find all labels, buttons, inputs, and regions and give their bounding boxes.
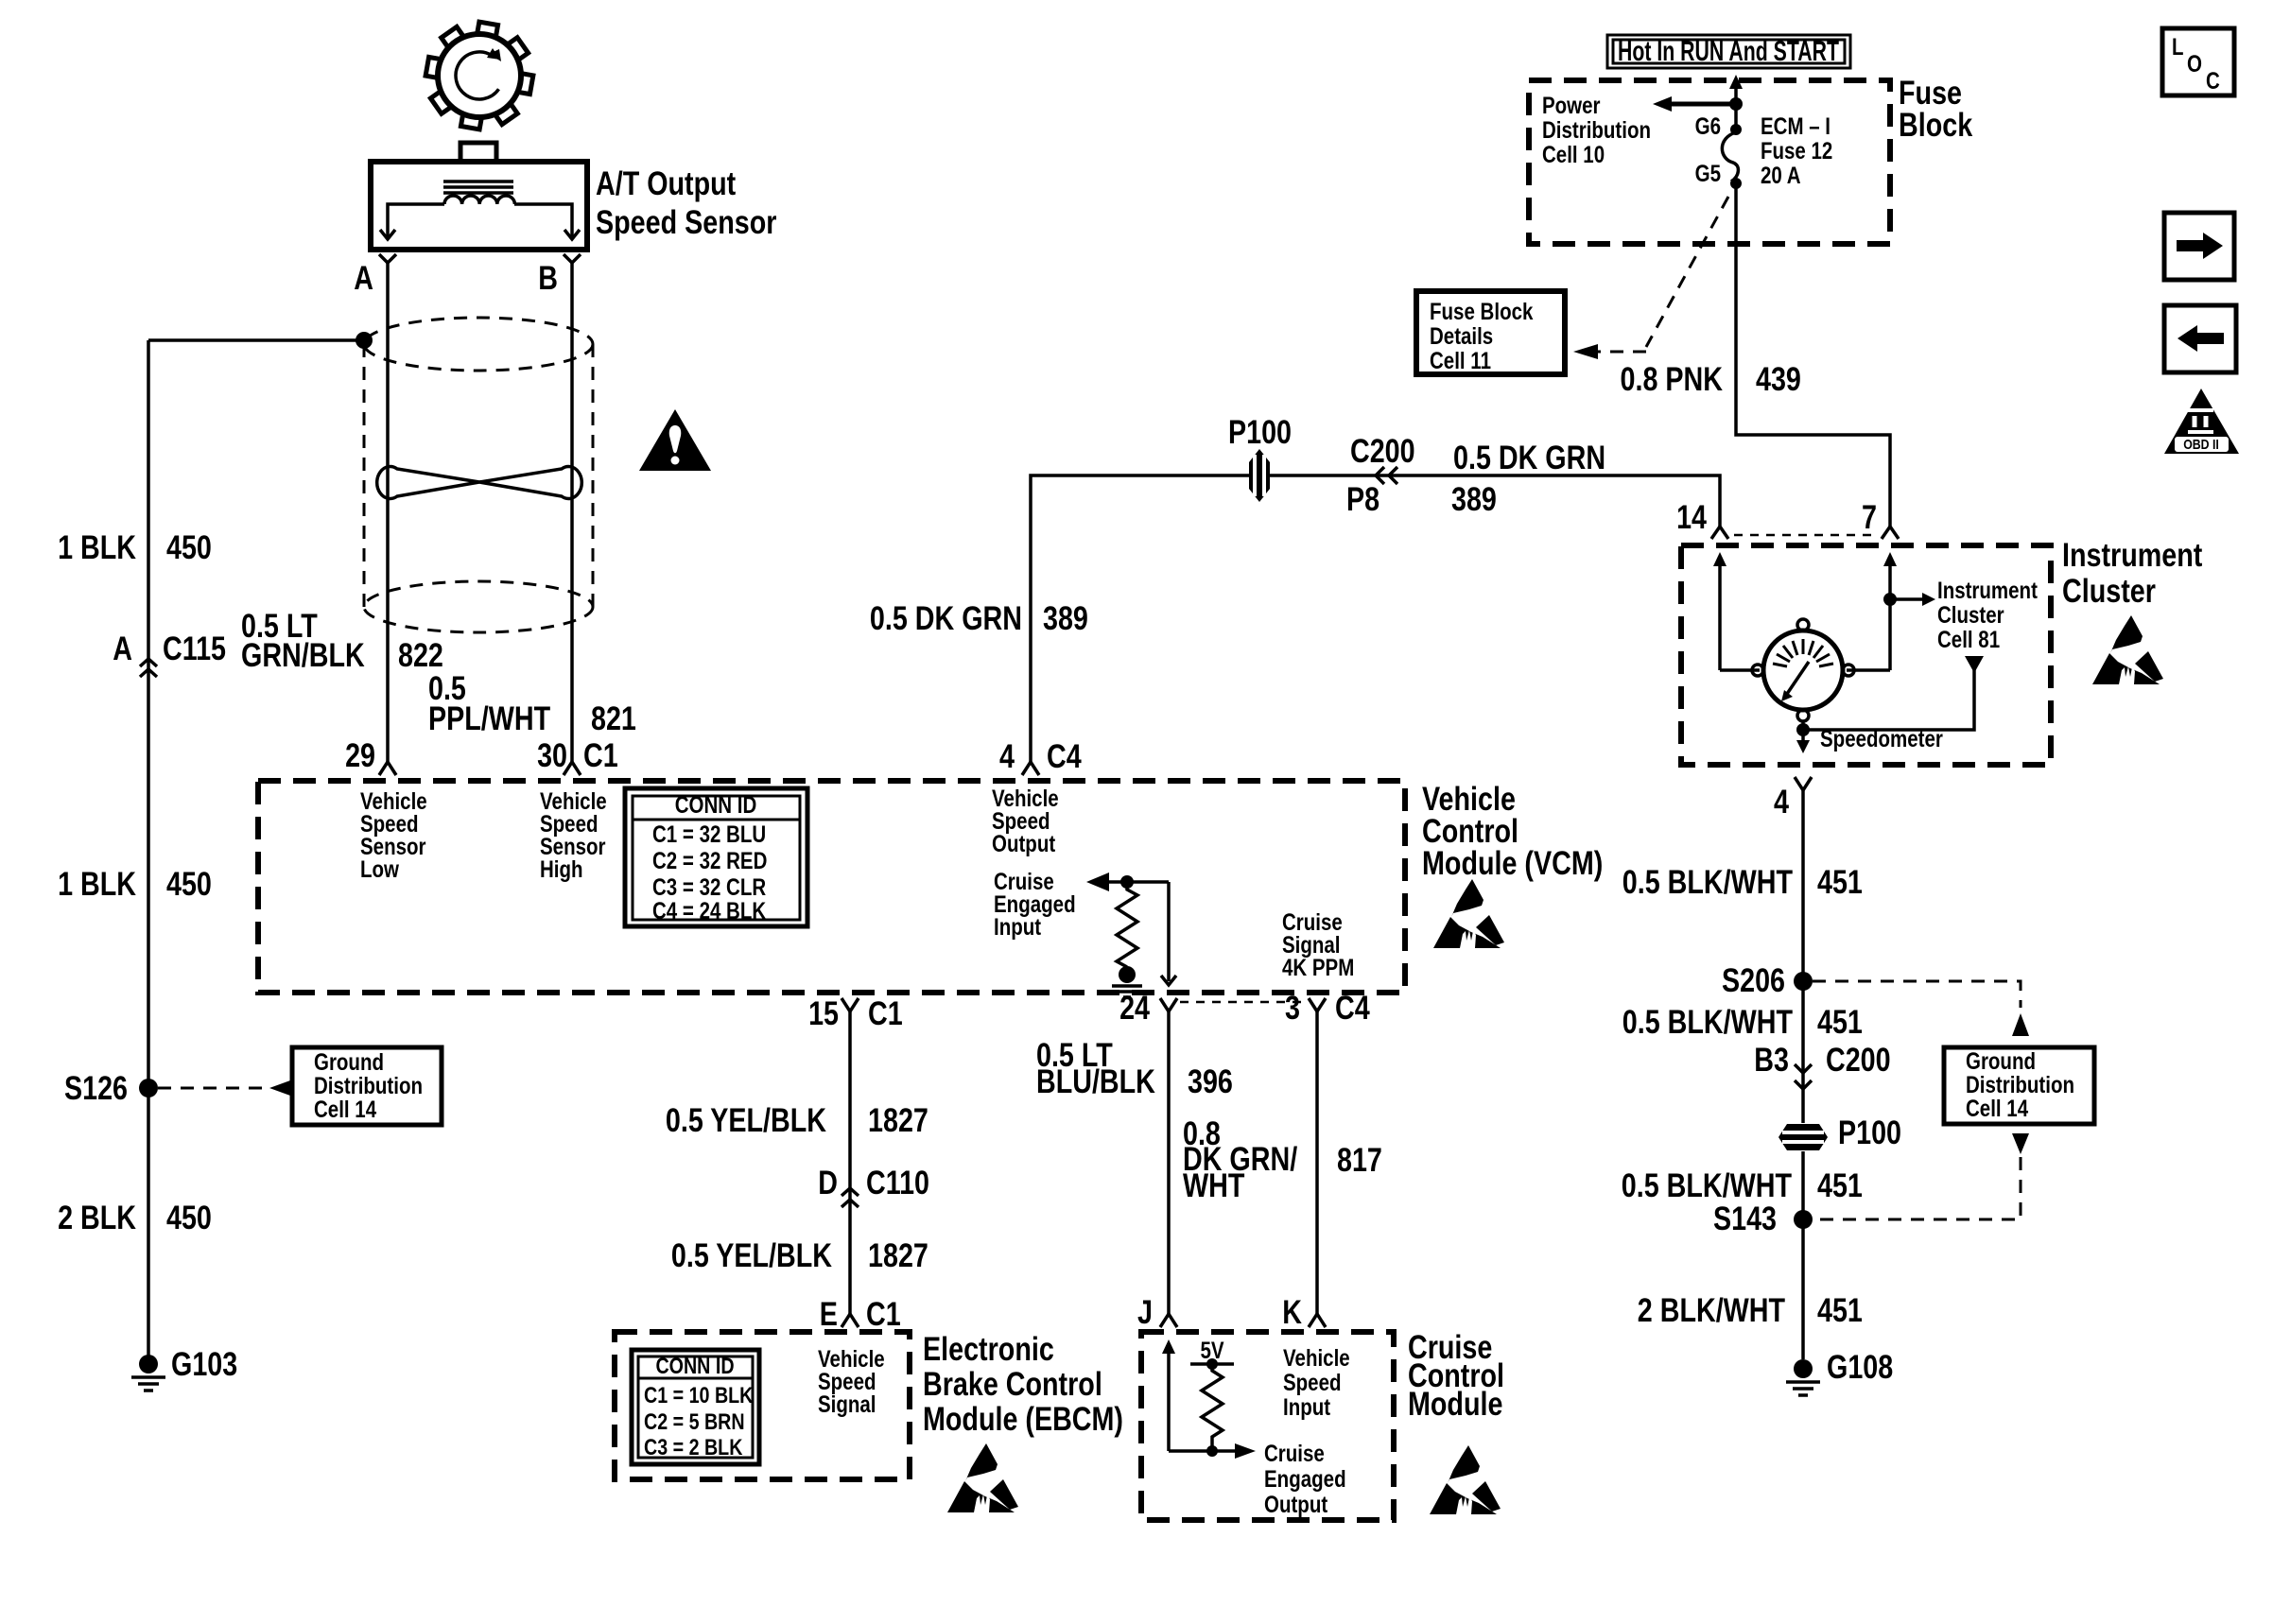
svg-text:CONN ID: CONN ID xyxy=(675,792,757,819)
svg-text:C1 = 32 BLU: C1 = 32 BLU xyxy=(652,821,766,848)
svg-text:Module: Module xyxy=(1408,1386,1502,1423)
svg-text:Hot In RUN And START: Hot In RUN And START xyxy=(1618,36,1839,67)
pin K connector at cruise xyxy=(1309,1314,1326,1327)
dashed reference S206 to ground distribution xyxy=(1813,981,2029,1036)
wire label 0.5 LT GRN/BLK 822 xyxy=(241,608,443,674)
Fuse Block dashed box xyxy=(1529,80,1890,244)
wire label 0.5 BLK/WHT 451 third xyxy=(1622,1167,1863,1204)
text Instrument Cluster Cell 81 xyxy=(1937,578,2038,653)
svg-text:Speedometer: Speedometer xyxy=(1820,726,1943,752)
wire label 0.5 YEL/BLK 1827 upper xyxy=(666,1102,928,1139)
svg-text:C4: C4 xyxy=(1047,738,1082,775)
svg-text:E: E xyxy=(820,1296,838,1333)
svg-text:BLU/BLK: BLU/BLK xyxy=(1036,1063,1155,1100)
ESD symbol EBCM xyxy=(947,1443,1018,1512)
cruise engaged input internal circuit xyxy=(1086,872,1176,997)
svg-text:Distribution: Distribution xyxy=(1542,117,1651,144)
svg-text:A/T Output: A/T Output xyxy=(596,165,736,202)
cruise text Vehicle Speed Input xyxy=(1283,1345,1350,1421)
svg-text:7: 7 xyxy=(1862,499,1877,536)
svg-text:C4 = 24 BLK: C4 = 24 BLK xyxy=(652,898,766,924)
svg-text:1827: 1827 xyxy=(868,1102,928,1139)
junction dot on shield xyxy=(356,332,373,349)
svg-text:3: 3 xyxy=(1285,990,1300,1027)
svg-text:439: 439 xyxy=(1756,361,1801,398)
svg-text:S126: S126 xyxy=(64,1070,128,1107)
label Electronic Brake Control Module (EBCM) xyxy=(923,1331,1123,1438)
svg-text:389: 389 xyxy=(1043,600,1088,637)
dashed reference S126 to ground distribution xyxy=(158,1080,290,1096)
wire 451 black/white lower xyxy=(1801,1151,1805,1359)
label C200 P8 xyxy=(1346,433,1415,518)
pin 4 C4 connector at VCM xyxy=(1022,762,1039,775)
label A C115 xyxy=(113,631,226,667)
svg-text:Instrument: Instrument xyxy=(2062,537,2203,574)
svg-text:0.8 PNK: 0.8 PNK xyxy=(1621,361,1724,398)
VCM text Vehicle Speed Sensor High xyxy=(540,788,607,883)
svg-text:K: K xyxy=(1282,1294,1302,1331)
pin 4 connector below cluster xyxy=(1795,777,1812,790)
ESD symbol cruise xyxy=(1430,1445,1501,1514)
svg-text:Distribution: Distribution xyxy=(314,1073,423,1099)
svg-text:C200: C200 xyxy=(1826,1042,1891,1079)
svg-text:ECM – I: ECM – I xyxy=(1761,113,1831,140)
svg-text:Fuse 12: Fuse 12 xyxy=(1761,138,1832,164)
svg-text:Details: Details xyxy=(1430,323,1493,350)
svg-text:Cell 11: Cell 11 xyxy=(1430,348,1491,374)
svg-text:WHT: WHT xyxy=(1183,1167,1244,1204)
svg-text:C3 = 32 CLR: C3 = 32 CLR xyxy=(652,874,766,901)
junction dot and arrow to cell 81 xyxy=(1883,593,1935,606)
svg-text:Low: Low xyxy=(360,856,399,883)
wire 817 from VCM pin 3 to cruise pin K xyxy=(1315,1011,1319,1314)
pin A connector xyxy=(379,254,396,263)
svg-text:24: 24 xyxy=(1119,990,1150,1027)
svg-text:C115: C115 xyxy=(163,631,226,667)
cluster internal riser pin 7 with up arrow xyxy=(1883,552,1897,670)
svg-text:J: J xyxy=(1137,1294,1153,1331)
EBCM text Vehicle Speed Signal xyxy=(818,1346,885,1418)
svg-text:2 BLK/WHT: 2 BLK/WHT xyxy=(1638,1292,1785,1329)
svg-text:High: High xyxy=(540,856,583,883)
CONN ID table EBCM xyxy=(632,1350,759,1464)
svg-text:C4: C4 xyxy=(1335,990,1370,1027)
arrow to power distribution xyxy=(1653,96,1736,112)
svg-text:C2 = 5 BRN: C2 = 5 BRN xyxy=(644,1409,745,1435)
fuse ECM-I Fuse 12 20A xyxy=(1722,124,1742,189)
svg-text:4: 4 xyxy=(999,738,1015,775)
svg-text:C110: C110 xyxy=(866,1165,929,1201)
sensor magnetic core lines xyxy=(443,181,513,193)
svg-text:0.5 BLK/WHT: 0.5 BLK/WHT xyxy=(1622,1167,1792,1204)
label A/T Output Speed Sensor xyxy=(596,165,777,241)
svg-text:S143: S143 xyxy=(1713,1201,1777,1237)
svg-text:CONN ID: CONN ID xyxy=(655,1354,734,1379)
VCM label Vehicle Control Module (VCM) xyxy=(1422,781,1603,882)
pin E connector at EBCM xyxy=(842,1314,859,1327)
connector bracket dashed between pins 24 and 3 xyxy=(1180,1001,1307,1004)
svg-text:Cruise: Cruise xyxy=(1264,1441,1325,1467)
svg-text:Signal: Signal xyxy=(818,1391,876,1418)
svg-text:B: B xyxy=(538,260,558,297)
pin J connector at cruise xyxy=(1160,1314,1177,1327)
svg-text:L: L xyxy=(2172,34,2184,60)
svg-text:451: 451 xyxy=(1817,1292,1863,1329)
svg-text:29: 29 xyxy=(345,737,375,774)
svg-text:S206: S206 xyxy=(1722,962,1785,999)
svg-text:0.5 DK GRN: 0.5 DK GRN xyxy=(1453,440,1605,476)
svg-text:OBD II: OBD II xyxy=(2183,437,2219,453)
svg-text:C1: C1 xyxy=(583,737,618,774)
VCM text Cruise Signal 4K PPM xyxy=(1282,909,1354,981)
pin 30 connector xyxy=(564,762,581,775)
svg-text:Electronic: Electronic xyxy=(923,1331,1054,1368)
OBD II triangle icon xyxy=(2164,389,2239,454)
svg-text:C3 = 2 BLK: C3 = 2 BLK xyxy=(644,1435,743,1460)
svg-text:C2 = 32 RED: C2 = 32 RED xyxy=(652,848,767,874)
VCM text Vehicle Speed Sensor Low xyxy=(360,788,427,883)
dashed reference ground distribution to S143 xyxy=(1813,1133,2029,1219)
svg-text:P8: P8 xyxy=(1346,481,1379,518)
wire 389 dark green xyxy=(1031,475,1720,762)
svg-text:G103: G103 xyxy=(171,1346,237,1383)
svg-text:Ground: Ground xyxy=(1966,1048,2036,1075)
LOC icon xyxy=(2162,28,2234,95)
speedometer output junction dot xyxy=(1796,723,1810,736)
wire label 1 BLK 450 lower xyxy=(58,866,212,903)
dashed reference fuse to details box xyxy=(1573,197,1728,359)
svg-text:30: 30 xyxy=(537,737,567,774)
svg-text:822: 822 xyxy=(398,637,443,674)
junction dot fuse feed xyxy=(1729,97,1743,111)
svg-text:389: 389 xyxy=(1451,481,1497,518)
svg-text:451: 451 xyxy=(1817,1004,1863,1041)
svg-text:1827: 1827 xyxy=(868,1237,928,1274)
svg-text:Cell 14: Cell 14 xyxy=(314,1097,376,1123)
ESD symbol instrument cluster xyxy=(2092,615,2163,684)
wire 439 pink xyxy=(1736,186,1890,527)
label D C110 xyxy=(818,1165,929,1201)
wire label 0.5 DK GRN 389 vertical xyxy=(870,600,1088,637)
wire label 1 BLK 450 upper xyxy=(58,529,212,566)
splice S143 xyxy=(1794,1210,1813,1229)
wire 822 from pin A to VCM pin 29 xyxy=(386,263,390,762)
svg-text:Ground: Ground xyxy=(314,1049,384,1076)
svg-text:450: 450 xyxy=(166,529,212,566)
cruise text Cruise Engaged Output xyxy=(1264,1441,1346,1518)
pin 7 connector at cluster xyxy=(1882,527,1899,539)
Ground Distribution Cell 14 box right xyxy=(1944,1047,2094,1124)
pin 15 label xyxy=(808,995,903,1032)
CONN ID table VCM xyxy=(625,788,807,926)
wire label 0.5 DK GRN 389 horizontal xyxy=(1451,440,1605,518)
svg-text:C1 = 10 BLK: C1 = 10 BLK xyxy=(644,1383,754,1408)
connector C110 double chevron up xyxy=(842,1188,859,1207)
svg-text:Module (VCM): Module (VCM) xyxy=(1422,845,1603,882)
connector bracket dashed between pins 14 and 7 xyxy=(1734,534,1878,537)
pin 14 connector at cluster xyxy=(1711,527,1728,539)
svg-text:P100: P100 xyxy=(1838,1114,1901,1151)
pin 24 connector xyxy=(1160,998,1177,1011)
cruise 5V supply xyxy=(1190,1338,1234,1370)
svg-text:1 BLK: 1 BLK xyxy=(58,529,136,566)
text Power Distribution Cell 10 xyxy=(1542,93,1651,168)
label Fuse Block xyxy=(1899,75,1973,144)
svg-text:Cell 10: Cell 10 xyxy=(1542,142,1605,168)
svg-text:4K PPM: 4K PPM xyxy=(1282,955,1354,981)
svg-text:C: C xyxy=(2206,68,2220,95)
label Cruise Control Module xyxy=(1408,1329,1504,1423)
svg-text:A: A xyxy=(113,631,132,667)
pin 29 connector xyxy=(379,762,396,775)
svg-text:Block: Block xyxy=(1899,107,1973,144)
svg-text:1 BLK: 1 BLK xyxy=(58,866,136,903)
svg-text:Cell 81: Cell 81 xyxy=(1937,627,2000,653)
label Instrument Cluster xyxy=(2062,537,2203,610)
pin E label xyxy=(820,1296,901,1333)
wire 396 from VCM pin 24 to cruise pin J xyxy=(1167,1011,1171,1314)
VCM module box xyxy=(258,781,1405,993)
svg-text:Output: Output xyxy=(1264,1492,1328,1518)
splice S206 xyxy=(1794,972,1813,991)
splice S126 xyxy=(139,1079,158,1097)
left arrow icon xyxy=(2164,305,2236,372)
pin 3 label xyxy=(1285,990,1370,1027)
wire label 0.5 YEL/BLK 1827 lower xyxy=(671,1237,928,1274)
svg-text:P100: P100 xyxy=(1228,414,1292,451)
svg-text:Speed: Speed xyxy=(1283,1370,1342,1396)
pin 4 C4 label xyxy=(999,738,1082,775)
connector C115 xyxy=(140,659,157,677)
svg-text:0.5 YEL/BLK: 0.5 YEL/BLK xyxy=(671,1237,832,1274)
svg-text:451: 451 xyxy=(1817,1167,1863,1204)
wire label 0.8 PNK 439 xyxy=(1621,361,1801,398)
svg-text:D: D xyxy=(818,1165,838,1201)
Instrument Cluster dashed box xyxy=(1681,545,2051,765)
pin B connector xyxy=(564,254,581,263)
svg-text:Brake Control: Brake Control xyxy=(923,1366,1102,1403)
wire label 0.8 DK GRN/WHT 817 xyxy=(1183,1115,1382,1204)
speedometer gauge xyxy=(1720,619,1890,721)
svg-text:Engaged: Engaged xyxy=(1264,1466,1346,1493)
cruise engaged output arrow xyxy=(1169,1443,1256,1459)
connector C200 B3 double chevron down xyxy=(1795,1064,1812,1089)
wire 1827 from VCM pin 15 to EBCM xyxy=(848,1011,852,1314)
pin 3 connector xyxy=(1309,998,1326,1011)
svg-text:396: 396 xyxy=(1188,1063,1233,1100)
wire label 0.5 BLK/WHT 451 second xyxy=(1622,1004,1863,1041)
svg-text:450: 450 xyxy=(166,866,212,903)
VCM text Vehicle Speed Output pin 4 xyxy=(992,786,1059,857)
label B3 C200 xyxy=(1754,1042,1890,1079)
svg-text:817: 817 xyxy=(1337,1142,1382,1179)
Hot In RUN And START box xyxy=(1607,35,1850,68)
svg-text:Input: Input xyxy=(994,914,1042,941)
svg-text:G6: G6 xyxy=(1695,113,1721,140)
EBCM module box xyxy=(615,1332,910,1479)
sensor internal wires with down arrows xyxy=(380,204,580,239)
wire label 0.5 PPL/WHT 821 xyxy=(428,670,636,737)
ground G103 xyxy=(131,1355,165,1391)
wire label 2 BLK/WHT 451 xyxy=(1638,1292,1863,1329)
svg-text:20 A: 20 A xyxy=(1761,163,1801,189)
svg-text:0.5 YEL/BLK: 0.5 YEL/BLK xyxy=(666,1102,826,1139)
svg-text:0.5 BLK/WHT: 0.5 BLK/WHT xyxy=(1622,1004,1793,1041)
sensor pickup coil xyxy=(444,196,514,204)
svg-text:PPL/WHT: PPL/WHT xyxy=(428,700,550,737)
svg-text:Cell 14: Cell 14 xyxy=(1966,1096,2028,1122)
svg-text:Instrument: Instrument xyxy=(1937,578,2038,604)
Ground Distribution Cell 14 box left xyxy=(292,1047,442,1125)
svg-text:Fuse Block: Fuse Block xyxy=(1430,299,1533,325)
Cruise Control Module box xyxy=(1141,1332,1394,1520)
svg-text:Power: Power xyxy=(1542,93,1601,119)
wire label 0.5 BLK/WHT 451 first xyxy=(1622,864,1863,901)
VCM text Cruise Engaged Input xyxy=(994,869,1076,941)
twisted pair symbol xyxy=(377,466,582,498)
wire label 2 BLK 450 xyxy=(58,1200,212,1236)
svg-text:15: 15 xyxy=(808,995,839,1032)
svg-text:450: 450 xyxy=(166,1200,212,1236)
svg-text:821: 821 xyxy=(591,700,636,737)
right arrow icon xyxy=(2164,213,2234,280)
connector C200 P8 double chevron xyxy=(1376,467,1397,484)
svg-text:Module (EBCM): Module (EBCM) xyxy=(923,1401,1123,1438)
pin 15 connector xyxy=(842,998,859,1011)
svg-text:O: O xyxy=(2187,51,2202,78)
svg-text:C200: C200 xyxy=(1350,433,1415,470)
svg-text:G108: G108 xyxy=(1827,1349,1893,1386)
wire label 0.5 LT BLU/BLK 396 xyxy=(1036,1037,1233,1100)
svg-text:Distribution: Distribution xyxy=(1966,1072,2074,1098)
shield drain wire xyxy=(148,338,364,342)
A/T Output Speed Sensor box xyxy=(371,143,587,250)
ESD symbol VCM xyxy=(1433,879,1504,948)
wire from gauge bottom with down arrow xyxy=(1796,721,1810,753)
svg-text:Input: Input xyxy=(1283,1394,1331,1421)
Fuse Block Details Cell 11 box xyxy=(1416,291,1565,374)
svg-text:4: 4 xyxy=(1774,784,1789,821)
svg-text:GRN/BLK: GRN/BLK xyxy=(241,637,365,674)
cruise internal up arrow at pin J xyxy=(1162,1339,1175,1451)
svg-text:Output: Output xyxy=(992,831,1056,857)
svg-text:B3: B3 xyxy=(1754,1042,1789,1079)
svg-text:Cluster: Cluster xyxy=(1937,602,2004,629)
dashed-solid return from cell 81 to speedometer xyxy=(1803,656,1984,730)
svg-text:451: 451 xyxy=(1817,864,1863,901)
grommet P100 on horizontal wire xyxy=(1249,449,1270,502)
left ground wire 450 xyxy=(147,340,150,1359)
grommet P100 on vertical wire xyxy=(1778,1124,1828,1150)
ground G108 xyxy=(1786,1359,1820,1395)
svg-text:0.5 DK GRN: 0.5 DK GRN xyxy=(870,600,1022,637)
cluster internal riser pin 14 with up arrow xyxy=(1713,552,1726,670)
wire from Hot box into fuse block with up arrow xyxy=(1729,75,1743,130)
svg-text:C1: C1 xyxy=(866,1296,901,1333)
wire 451 black/white upper xyxy=(1801,790,1805,1123)
svg-text:0.5 BLK/WHT: 0.5 BLK/WHT xyxy=(1622,864,1793,901)
svg-text:G5: G5 xyxy=(1695,161,1721,187)
svg-text:A: A xyxy=(354,260,373,297)
svg-text:Speed Sensor: Speed Sensor xyxy=(596,204,777,241)
wire 821 from pin B to VCM pin 30 xyxy=(570,263,574,762)
svg-text:Vehicle: Vehicle xyxy=(1283,1345,1350,1372)
cruise pull-up resistor xyxy=(1202,1364,1223,1451)
shield dashed cylinder xyxy=(364,318,593,632)
label ECM-I Fuse 12 20 A xyxy=(1761,113,1832,189)
svg-text:2 BLK: 2 BLK xyxy=(58,1200,136,1236)
warning triangle with exclamation xyxy=(639,409,711,471)
svg-text:Cluster: Cluster xyxy=(2062,573,2156,610)
svg-text:14: 14 xyxy=(1676,499,1707,536)
svg-text:C1: C1 xyxy=(868,995,903,1032)
gear reluctor wheel icon xyxy=(425,22,533,130)
